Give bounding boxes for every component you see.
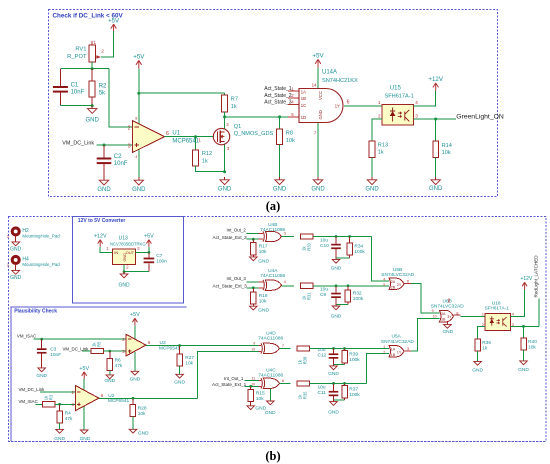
junction C1/R2 gnd	[91, 104, 94, 107]
wire U5A out to U6B	[404, 318, 439, 351]
wire U4A inputs	[247, 282, 264, 288]
svg-text:1k: 1k	[231, 104, 237, 110]
label VM_ISAC (U3)	[17, 333, 36, 338]
ground under R27	[174, 366, 185, 385]
label Act_State_2	[264, 93, 291, 99]
svg-text:2: 2	[101, 49, 104, 54]
ground under R14	[429, 177, 443, 192]
junction R12 tap	[194, 135, 197, 138]
svg-text:GND: GND	[311, 187, 325, 193]
svg-text:R15: R15	[256, 390, 265, 396]
ground under U4C	[265, 401, 276, 416]
svg-text:100k: 100k	[349, 357, 360, 363]
or-gate U6B	[431, 299, 465, 323]
ground under U1	[132, 177, 146, 193]
wire U2 out up to U4D	[198, 351, 261, 398]
svg-text:1: 1	[383, 345, 385, 349]
frame box plausibility	[11, 307, 187, 441]
svg-text:12V to 5V Converter: 12V to 5V Converter	[78, 218, 126, 224]
svg-text:47k: 47k	[115, 363, 123, 369]
wire U4D out	[280, 348, 291, 350]
svg-text:C10: C10	[320, 243, 329, 249]
ground under R6	[104, 371, 115, 385]
ground under R18	[250, 304, 270, 313]
wire +5V rail to R7	[139, 92, 225, 94]
capacitor C12 + resistor R39	[318, 347, 361, 377]
svg-text:4: 4	[415, 100, 418, 105]
svg-text:SN74LVC32AD: SN74LVC32AD	[381, 272, 415, 278]
junction +5V rail	[137, 92, 140, 95]
resistor R6	[107, 351, 123, 370]
wire U15 pin2 to R13	[372, 119, 382, 141]
svg-text:10: 10	[433, 315, 437, 319]
svg-text:NCV7805BDTRKG: NCV7805BDTRKG	[110, 241, 146, 246]
svg-text:VM_ISAC: VM_ISAC	[17, 333, 36, 338]
svg-text:Int_Out_3: Int_Out_3	[227, 276, 247, 281]
svg-text:3A: 3A	[441, 312, 446, 316]
svg-text:R37: R37	[349, 386, 358, 392]
svg-text:47k: 47k	[65, 416, 73, 422]
capacitor C11 + resistor R37	[318, 382, 361, 416]
junction R14 tap	[434, 118, 437, 121]
svg-text:11: 11	[251, 377, 255, 381]
power +5V (U2)	[79, 366, 89, 379]
svg-text:10k: 10k	[286, 138, 295, 144]
svg-text:VM_ISAC: VM_ISAC	[19, 399, 38, 404]
xor-gate U4A	[260, 268, 286, 290]
svg-text:1B: 1B	[391, 353, 396, 357]
resistor R27	[177, 346, 195, 367]
svg-text:10k: 10k	[256, 396, 264, 402]
resistor R2	[89, 69, 107, 106]
svg-text:R40: R40	[528, 339, 537, 345]
svg-text:GND: GND	[365, 187, 379, 193]
svg-text:74AC11086: 74AC11086	[258, 335, 283, 341]
wire R12 to gnd node	[196, 166, 225, 172]
svg-text:1Y: 1Y	[335, 103, 340, 108]
wire +12V to U13 IN	[100, 247, 112, 253]
junction R8 tap	[278, 115, 281, 118]
svg-text:C3: C3	[50, 346, 56, 352]
svg-text:SN74LVC32AD: SN74LVC32AD	[381, 339, 415, 345]
svg-text:R28: R28	[138, 405, 147, 411]
svg-text:4: 4	[135, 155, 137, 159]
svg-text:Q_NMOS_GDS: Q_NMOS_GDS	[234, 131, 274, 137]
svg-text:2: 2	[226, 122, 229, 127]
svg-text:R7: R7	[231, 97, 238, 103]
svg-text:100k: 100k	[349, 392, 360, 398]
optocoupler U18	[482, 301, 515, 331]
svg-text:GND: GND	[472, 367, 483, 373]
op-amp U1	[128, 116, 200, 159]
ground under H2	[10, 242, 22, 253]
svg-text:R5: R5	[97, 341, 102, 347]
xor-gate U4D	[251, 331, 285, 354]
svg-text:GND: GND	[174, 379, 185, 385]
wire VM_ISAC to U3 in-	[34, 338, 127, 340]
label Act_State_Ext_2	[213, 235, 248, 240]
svg-text:IN: IN	[114, 250, 118, 255]
svg-text:C12: C12	[318, 353, 327, 359]
svg-text:GND: GND	[258, 258, 269, 264]
op-amp U3	[122, 334, 180, 356]
wire R5 to U3 in+	[104, 350, 126, 352]
capacitor C7	[144, 252, 168, 271]
ground under R15	[247, 402, 267, 412]
resistor R36	[475, 339, 491, 352]
label VM_DC_Link (U3)	[63, 347, 90, 352]
resistor R28	[130, 398, 147, 417]
svg-text:10u: 10u	[318, 347, 326, 353]
svg-text:10k: 10k	[442, 150, 451, 156]
svg-text:MountingHole_Pad: MountingHole_Pad	[22, 262, 60, 267]
svg-text:+5V: +5V	[312, 52, 324, 59]
svg-text:VM_DC_Link: VM_DC_Link	[62, 140, 94, 146]
svg-text:R34: R34	[354, 243, 363, 249]
svg-text:GND: GND	[10, 275, 22, 281]
mounting hole H4	[7, 256, 61, 270]
svg-text:C7: C7	[156, 253, 162, 259]
title Plausibility Check	[14, 308, 57, 314]
svg-text:Act_State_1: Act_State_1	[264, 86, 291, 92]
wire U4A out	[282, 285, 295, 287]
svg-text:3B: 3B	[441, 317, 446, 321]
svg-text:+12V: +12V	[428, 76, 443, 83]
svg-text:GND: GND	[123, 253, 127, 262]
resistor R17	[251, 239, 268, 255]
ground under U6B	[442, 324, 453, 335]
resistor R15	[248, 386, 265, 402]
wire U4C out	[280, 382, 291, 384]
svg-text:GND: GND	[54, 436, 65, 442]
power +12V (U13)	[94, 234, 107, 247]
wire U4C inputs	[245, 380, 262, 386]
junction C3 tap	[40, 338, 43, 341]
junction R28 tap	[132, 397, 135, 400]
svg-text:14: 14	[312, 82, 317, 87]
transistor Q1	[198, 117, 273, 172]
svg-text:U13: U13	[119, 235, 128, 241]
svg-text:MountingHole_Pad: MountingHole_Pad	[22, 234, 60, 239]
xor-gate U4C	[251, 368, 285, 389]
resistor R13	[369, 141, 388, 177]
svg-text:R13: R13	[378, 142, 388, 148]
ground under R36	[472, 351, 483, 373]
resistor R4	[57, 404, 73, 423]
svg-text:GND: GND	[130, 377, 141, 383]
svg-text:SN74LVC32AD: SN74LVC32AD	[431, 303, 465, 309]
svg-text:Plausibility Check: Plausibility Check	[14, 308, 57, 314]
svg-text:RV1: RV1	[75, 47, 86, 53]
wire U1 power pins	[138, 69, 140, 178]
svg-text:C11: C11	[318, 390, 327, 396]
junction R4 tap	[58, 403, 61, 406]
svg-text:1A: 1A	[391, 348, 396, 352]
ground under Q1	[218, 177, 232, 193]
svg-text:R31: R31	[306, 292, 311, 300]
svg-text:GND: GND	[118, 283, 130, 289]
svg-text:GND: GND	[273, 187, 287, 193]
caption (a)	[266, 199, 280, 213]
potentiometer RV1	[67, 40, 104, 62]
svg-text:VCC: VCC	[318, 91, 323, 100]
svg-text:10k: 10k	[259, 298, 267, 304]
wire U14A GND pin	[317, 123, 319, 177]
or-gate U5B	[381, 267, 415, 289]
ground under C2	[97, 177, 111, 193]
label VM_DC_Link (U2)	[19, 387, 46, 392]
svg-text:GND: GND	[442, 329, 453, 335]
svg-text:10: 10	[251, 383, 255, 387]
svg-text:1k: 1k	[202, 158, 208, 164]
svg-text:2B: 2B	[391, 286, 396, 290]
svg-text:1Y: 1Y	[397, 351, 402, 355]
svg-text:R39: R39	[349, 351, 358, 357]
svg-text:R4: R4	[65, 411, 71, 417]
wire U14A input pins	[288, 91, 299, 117]
svg-text:1B: 1B	[301, 96, 306, 101]
svg-text:9: 9	[253, 341, 255, 345]
svg-text:GND: GND	[265, 410, 276, 416]
resistor R7	[222, 93, 238, 117]
wire U4B inputs	[247, 234, 264, 240]
resistor R14	[433, 119, 452, 177]
svg-text:2: 2	[378, 114, 381, 119]
resistor R38	[297, 346, 310, 365]
svg-text:2: 2	[128, 125, 131, 131]
ground under R28	[129, 417, 149, 437]
ground under R8	[273, 177, 287, 193]
wire C1/R2 bottom	[60, 105, 92, 107]
wire U18 pin2 to R36	[478, 326, 486, 338]
wire +12V to U18 pin4	[510, 290, 524, 317]
junction R6 tap	[108, 350, 111, 353]
power +5V (U14A)	[312, 52, 324, 67]
svg-text:74AC11086: 74AC11086	[260, 227, 285, 233]
capacitor C10 + resistor R34	[320, 235, 365, 271]
svg-text:2Y: 2Y	[397, 283, 402, 287]
label RedLight_LATCHED	[534, 255, 539, 298]
svg-text:R32: R32	[353, 291, 362, 297]
svg-text:10nF: 10nF	[71, 90, 85, 96]
junction R27 tap	[178, 344, 181, 347]
svg-text:(a): (a)	[266, 199, 280, 213]
power +5V (U3)	[130, 312, 140, 325]
resistor R18	[251, 288, 268, 305]
svg-text:GreenLight_ON: GreenLight_ON	[456, 113, 504, 120]
svg-text:2A: 2A	[391, 280, 396, 284]
ground under R13	[365, 177, 379, 193]
svg-text:(b): (b)	[265, 449, 280, 463]
svg-text:R36: R36	[482, 340, 491, 346]
svg-text:1k: 1k	[378, 150, 384, 156]
svg-text:GND: GND	[10, 247, 22, 253]
label VM_ISAC (U2)	[19, 399, 38, 404]
wire VM_DC_Link to R5	[82, 350, 91, 352]
wire U15 pin3 GreenLight	[414, 118, 457, 120]
wire U3 power pins	[134, 325, 136, 370]
junction Q1 source gnd	[223, 170, 226, 173]
wire drain to gate 1D	[225, 116, 299, 118]
svg-text:1: 1	[198, 138, 201, 143]
resistor R35	[297, 381, 310, 399]
resistor R3	[43, 394, 56, 407]
svg-text:5k: 5k	[99, 91, 106, 97]
svg-text:SN74HC21KX: SN74HC21KX	[322, 78, 358, 84]
svg-text:3: 3	[415, 114, 418, 119]
svg-text:Act_State_Ext_1: Act_State_Ext_1	[212, 382, 247, 387]
junction C2 tap	[103, 144, 106, 147]
resistor R12	[193, 137, 213, 166]
svg-text:R_POT: R_POT	[67, 54, 87, 60]
svg-text:GND: GND	[331, 265, 342, 271]
svg-text:SFH617A-1: SFH617A-1	[385, 94, 414, 100]
svg-text:Int_Out_2: Int_Out_2	[227, 227, 247, 232]
wire U1 out to Q1 gate	[164, 136, 213, 138]
svg-text:3: 3	[128, 143, 131, 149]
svg-text:RedLight_LATCHED: RedLight_LATCHED	[534, 255, 539, 298]
svg-text:R33: R33	[306, 242, 311, 250]
ground under R40	[518, 350, 529, 373]
junction RV1/R2/C1	[91, 67, 94, 70]
ground under H4	[10, 270, 22, 281]
svg-text:GND: GND	[429, 186, 443, 192]
svg-text:10u: 10u	[320, 238, 328, 244]
junction U13 gnd	[123, 270, 126, 273]
wire R33 to U5B	[313, 237, 389, 282]
svg-text:GND: GND	[86, 117, 100, 123]
svg-text:U14A: U14A	[322, 69, 337, 75]
svg-text:2: 2	[383, 350, 385, 354]
and-gate U14A	[291, 69, 358, 135]
label Act_State_3	[264, 100, 291, 106]
svg-text:1D: 1D	[301, 115, 306, 120]
svg-text:GND: GND	[138, 430, 149, 436]
svg-text:GND: GND	[97, 187, 111, 193]
svg-text:1: 1	[94, 40, 97, 45]
label Int_Out_1	[224, 376, 244, 381]
svg-text:Act_State_Ext_2: Act_State_Ext_2	[213, 235, 248, 240]
wire R35 to U5A	[310, 354, 390, 384]
label Act_State_Ext_1	[212, 382, 247, 387]
wire U13 gnd node	[124, 264, 149, 271]
svg-text:U1: U1	[172, 131, 180, 137]
svg-text:+5V: +5V	[144, 234, 154, 240]
svg-text:R38: R38	[303, 356, 308, 364]
svg-text:R6: R6	[115, 357, 121, 363]
wire U6B out to U18	[453, 315, 485, 316]
power +12V (U15)	[428, 76, 443, 91]
svg-text:GND: GND	[328, 371, 339, 377]
label Int_Out_2	[227, 227, 247, 232]
svg-text:+5V: +5V	[133, 53, 145, 60]
capacitor C1	[53, 69, 85, 106]
ground under U3	[130, 371, 141, 383]
wire U2 out	[99, 397, 198, 399]
wire R3 to U2 in+	[55, 403, 75, 405]
resistor R8	[277, 117, 295, 177]
svg-text:GND: GND	[328, 410, 339, 416]
label Act_State_Ext_3	[213, 284, 248, 289]
wire R31 to U5B	[313, 285, 389, 287]
svg-text:10u: 10u	[318, 385, 326, 391]
ground under U14A	[311, 177, 325, 193]
optocoupler U15	[378, 86, 418, 126]
wire VM_DC_Link to opamp in+	[96, 144, 132, 146]
wire U5B out to U6B	[404, 284, 439, 314]
svg-text:3Y: 3Y	[447, 315, 452, 319]
svg-text:+5V: +5V	[108, 19, 119, 25]
label Act_State_1	[264, 86, 291, 92]
svg-text:R14: R14	[442, 143, 452, 149]
junction R15 tap	[249, 385, 252, 388]
svg-text:9: 9	[432, 309, 434, 313]
svg-text:GND: GND	[104, 378, 115, 384]
svg-text:MCP6541: MCP6541	[159, 345, 181, 351]
xor-gate U4B	[260, 222, 286, 242]
svg-text:10k: 10k	[528, 345, 536, 351]
power +5V (RV1)	[108, 19, 119, 33]
svg-text:10k: 10k	[185, 361, 193, 367]
svg-text:GND: GND	[331, 314, 342, 320]
junction R17 tap	[252, 238, 255, 241]
svg-text:R35: R35	[303, 391, 308, 399]
title Check if DC_Link	[53, 13, 124, 20]
svg-text:+5V: +5V	[79, 366, 89, 372]
svg-text:C1: C1	[71, 83, 79, 89]
wire U18 pin3 out	[510, 325, 539, 327]
wire node to opamp in-	[109, 69, 133, 127]
svg-text:+12V: +12V	[520, 276, 532, 282]
svg-text:R12: R12	[202, 151, 212, 157]
svg-text:R18: R18	[259, 293, 268, 299]
svg-text:R17: R17	[259, 244, 268, 250]
capacitor C3	[37, 339, 61, 367]
title 12V to 5V Converter	[78, 218, 126, 224]
op-amp U2	[71, 386, 129, 411]
svg-text:5: 5	[383, 283, 385, 287]
ground under C3	[36, 367, 47, 379]
svg-text:Act_State_3: Act_State_3	[264, 100, 291, 106]
svg-text:Act_State_2: Act_State_2	[264, 93, 291, 99]
svg-text:8: 8	[135, 116, 137, 120]
regulator U13	[106, 235, 145, 269]
frame box section b	[9, 217, 547, 442]
or-gate U5A	[381, 334, 415, 358]
label Int_Out_3	[227, 276, 247, 281]
power +5V (U1)	[133, 53, 145, 68]
frame box section a	[49, 10, 498, 197]
svg-text:74AC11086: 74AC11086	[260, 273, 285, 279]
ground under U2	[80, 429, 91, 442]
svg-text:Act_State_Ext_3: Act_State_Ext_3	[213, 284, 248, 289]
wire RV1 to node	[91, 62, 93, 69]
svg-text:U15: U15	[390, 86, 402, 92]
svg-text:10u: 10u	[320, 287, 328, 293]
svg-text:4: 4	[383, 277, 385, 281]
svg-text:10k: 10k	[259, 249, 267, 255]
wire RedLight riser	[538, 299, 540, 327]
mounting hole H2	[7, 228, 61, 242]
svg-text:10: 10	[251, 348, 255, 352]
svg-text:R2: R2	[99, 83, 107, 89]
wire U6B gnd pin	[446, 322, 448, 324]
svg-text:GND: GND	[318, 110, 323, 119]
svg-text:100k: 100k	[353, 296, 364, 302]
svg-text:GND: GND	[80, 436, 91, 442]
label VM_DC_Link	[62, 140, 94, 146]
svg-text:GND: GND	[132, 187, 146, 193]
